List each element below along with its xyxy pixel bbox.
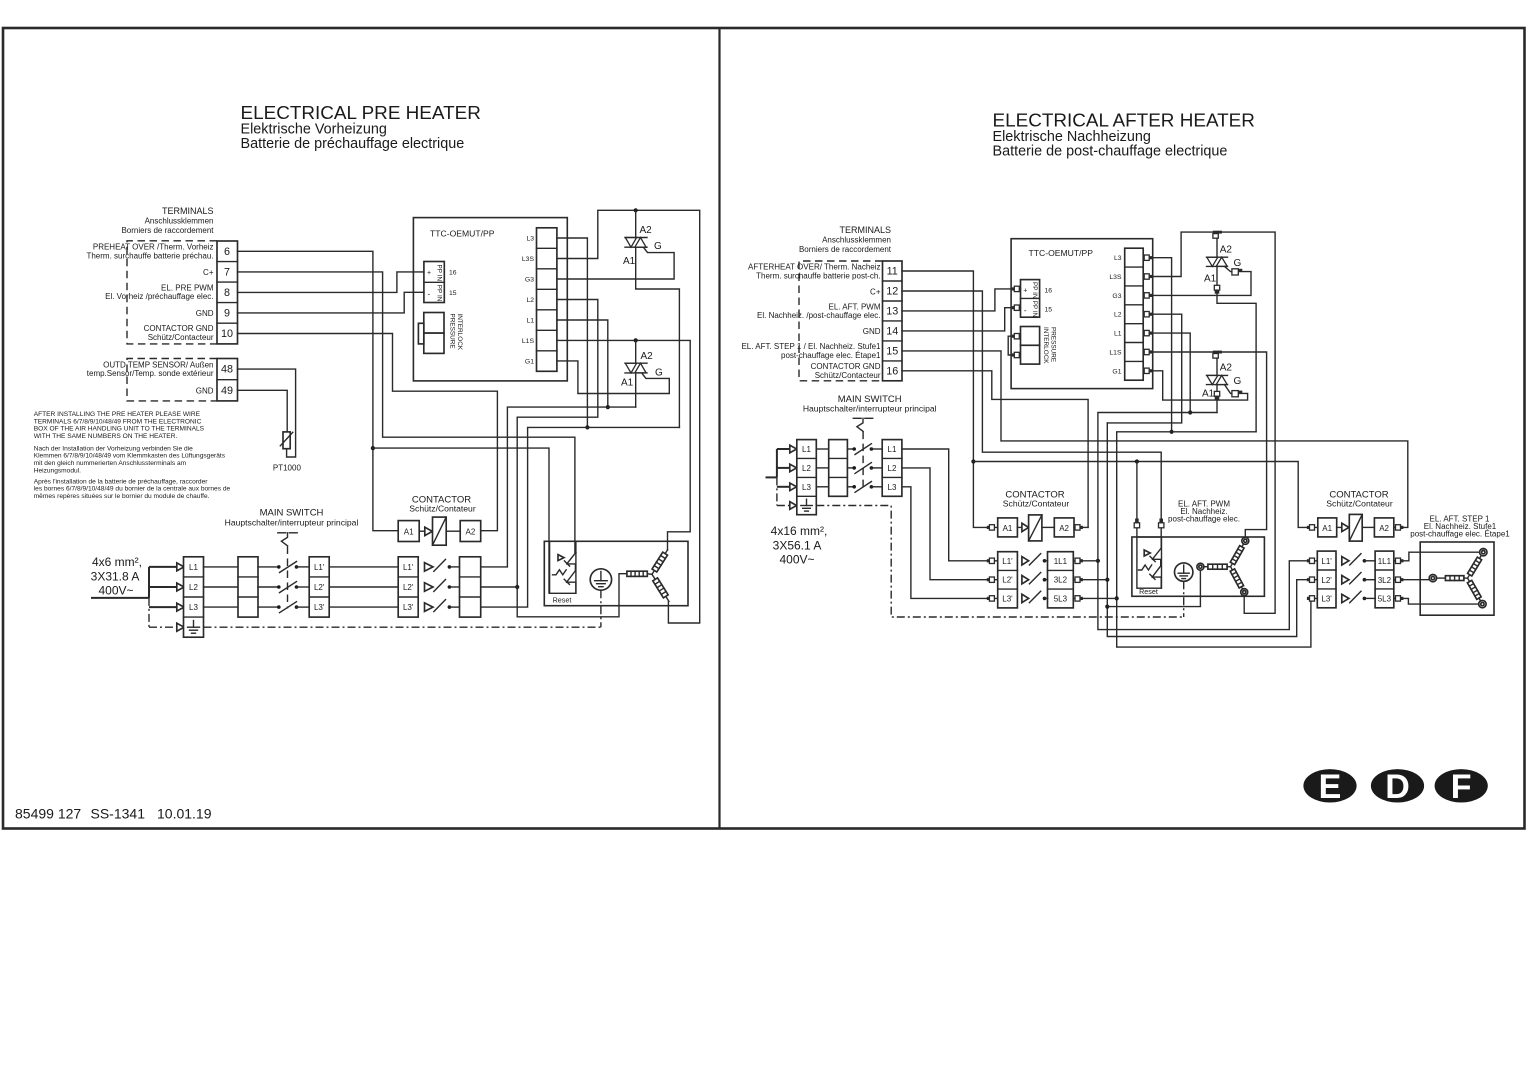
svg-text:Schütz/Contacteur: Schütz/Contacteur [815, 371, 881, 380]
svg-text:Après l'installation de la bat: Après l'installation de la batterie de p… [34, 478, 209, 485]
svg-text:G1: G1 [1112, 368, 1121, 375]
pin connector triac Q4 G [1232, 391, 1242, 397]
arrow L3 [790, 483, 797, 491]
controller box TTC-OEMUT/PP [1011, 239, 1153, 389]
feeder label [771, 524, 828, 567]
svg-text:PREHEAT OVER /Therm. Vorheiz: PREHEAT OVER /Therm. Vorheiz [93, 243, 214, 252]
wire L2 out [1107, 314, 1181, 423]
svg-text:400V~: 400V~ [98, 584, 133, 598]
contactor pole L2' arrow+blade [425, 580, 452, 592]
svg-text:49: 49 [221, 385, 233, 397]
svg-text:Schütz/Contateur: Schütz/Contateur [409, 504, 476, 514]
pin connector TTC output G1 [1144, 368, 1152, 373]
arrow L2 [177, 583, 184, 591]
wire G3 to triac Q3 gate [1143, 266, 1251, 295]
thermal element zigzag [553, 570, 567, 575]
wire branch to reset contact [1136, 462, 1138, 538]
node L2 junction at contact [515, 585, 519, 589]
pressure interlock block [418, 313, 463, 354]
input terminal block L1 L2 L3 PE [184, 557, 204, 637]
svg-text:-: - [1024, 306, 1027, 315]
svg-text:A1: A1 [1003, 524, 1013, 533]
coil arrow [419, 530, 425, 532]
wire L3S out top run [1143, 232, 1275, 613]
K1 pole 2 arrow+blade [1022, 573, 1046, 584]
svg-text:A2: A2 [1220, 363, 1233, 374]
svg-text:PRESSURE: PRESSURE [1049, 327, 1056, 362]
svg-text:L3': L3' [314, 603, 325, 612]
svg-text:Schütz/Contateur: Schütz/Contateur [1326, 499, 1393, 509]
fuse block (empty) [238, 557, 258, 617]
output terminal column L3..G1 [1125, 248, 1144, 380]
svg-text:A1: A1 [1204, 274, 1217, 285]
wire L1 net horizontal [481, 407, 636, 567]
svg-text:INTERLOCK: INTERLOCK [1042, 327, 1049, 364]
svg-text:5L3: 5L3 [1378, 595, 1392, 604]
wire 3L2 to left resistor [1394, 579, 1429, 581]
svg-text:L2': L2' [403, 583, 414, 592]
svg-text:PRESSURE: PRESSURE [449, 314, 456, 349]
svg-text:Batterie de préchauffage elect: Batterie de préchauffage electrique [241, 136, 465, 152]
arrow L2 [790, 464, 797, 472]
terminal block 6-10 [217, 241, 238, 344]
svg-text:10: 10 [221, 328, 233, 340]
page divider [718, 28, 720, 829]
wires K2 contacts [1364, 560, 1375, 562]
A1 box [1318, 518, 1337, 537]
pin connector PP IN + (16) [1012, 286, 1020, 291]
svg-text:16: 16 [886, 365, 898, 377]
reset thermal cutout box [550, 541, 576, 604]
node L1 junction [1188, 410, 1192, 414]
wire L1 out [557, 320, 608, 407]
terminal block L1' L2' L3' (first) [309, 557, 329, 617]
svg-text:GND: GND [863, 327, 881, 336]
warning text blocks [34, 411, 231, 500]
svg-text:C+: C+ [870, 287, 881, 296]
switch pole L2 [277, 582, 298, 593]
svg-text:TERMINALS: TERMINALS [839, 225, 891, 235]
pin connector K2 A2 [1396, 525, 1404, 530]
svg-text:G: G [1234, 376, 1242, 387]
wires contacts to block5 [449, 566, 459, 568]
main switch handle symbol [853, 418, 872, 431]
K2 output block 1L1 3L2 5L3 [1375, 551, 1394, 608]
svg-text:8: 8 [224, 287, 230, 299]
pin connector triac Q3 A2 [1213, 231, 1222, 239]
svg-text:A2: A2 [640, 225, 653, 236]
output block (empty) [460, 557, 481, 617]
wire terminal 14 to PP IN - [902, 308, 1021, 331]
step heater star upper-right resistor [1465, 554, 1483, 579]
svg-text:Heizungsmodul.: Heizungsmodul. [34, 467, 81, 474]
svg-text:mêmes repères situées sur le b: mêmes repères situées sur le bornier du … [34, 493, 210, 500]
wires block1 to block2 [204, 566, 239, 568]
badge F [1435, 768, 1488, 806]
pin connector K2 output [1396, 577, 1404, 582]
PT1000 sensor [273, 432, 302, 473]
node reset feed branch [1135, 459, 1139, 463]
PE stub [149, 626, 177, 628]
svg-text:Reset: Reset [1139, 587, 1158, 596]
input terminal block L1 L2 L3 PE [797, 440, 817, 515]
svg-text:L1S: L1S [1109, 350, 1122, 357]
svg-text:post-chauffage elec. Étape1: post-chauffage elec. Étape1 [781, 351, 881, 360]
svg-text:C+: C+ [203, 268, 214, 277]
svg-text:L2: L2 [802, 464, 811, 473]
arrow L1 [790, 445, 797, 453]
svg-text:G: G [654, 241, 662, 252]
switch pole L2 [852, 463, 873, 474]
controller box TTC-OEMUT/PP [413, 218, 567, 381]
svg-text:G3: G3 [1112, 293, 1121, 300]
pin connector TTC output L1S [1144, 349, 1152, 354]
wires block3 to block4 [329, 566, 398, 568]
A2 box [1374, 518, 1393, 537]
svg-text:L3: L3 [526, 236, 534, 243]
PE equipotential line (dash-dot) [816, 506, 1183, 618]
feeder label [91, 555, 142, 598]
svg-text:El. Nachheiz. /post-chauffage: El. Nachheiz. /post-chauffage elec. [757, 311, 880, 320]
node: junction terminal 6 branch [371, 446, 375, 450]
heater star upper-right resistor [1228, 543, 1245, 568]
interlock jumper [1008, 336, 1012, 355]
svg-text:Batterie de post-chauffage ele: Batterie de post-chauffage electrique [993, 144, 1228, 160]
terminal block 48-49 [217, 359, 238, 401]
arrow L1 [177, 563, 184, 571]
node L3 junction [1170, 430, 1174, 434]
pin connector pressure interlock 2 [1012, 352, 1020, 357]
svg-text:Reset: Reset [553, 596, 572, 605]
pin connector K2 input [1307, 596, 1315, 601]
pin connector K1 input [987, 558, 995, 563]
svg-text:Klemmen 6/7/8/9/10/48/49 vom K: Klemmen 6/7/8/9/10/48/49 vom Klemmkasten… [34, 453, 226, 460]
PE stub [777, 505, 790, 507]
pin connector K2 output [1396, 596, 1404, 601]
svg-text:L3: L3 [1114, 255, 1122, 262]
svg-text:PP IN: PP IN [435, 285, 442, 302]
pin connector K2 input [1307, 558, 1315, 563]
triac Q1 [623, 210, 679, 427]
main switch linkage (dashed) [287, 547, 289, 609]
svg-text:CONTACTOR GND: CONTACTOR GND [811, 362, 881, 371]
K2 pole 2 arrow+blade [1342, 573, 1366, 584]
svg-text:TTC-OEMUT/PP: TTC-OEMUT/PP [430, 229, 495, 239]
heater enclosure [544, 541, 688, 605]
svg-text:L2': L2' [1002, 576, 1013, 585]
svg-text:WITH THE SAME NUMBERS ON THE H: WITH THE SAME NUMBERS ON THE HEATER. [34, 433, 178, 440]
phase stub L1 [777, 448, 790, 450]
wire terminal 13 to PP IN + [902, 289, 1021, 311]
wire L3 net horizontal [1117, 432, 1318, 647]
coil arrow [1337, 526, 1342, 528]
wire branch to contactor K2 A1 [973, 462, 1317, 528]
PP IN input block [424, 262, 444, 303]
contact blade upper [567, 552, 576, 564]
title left [241, 103, 481, 152]
wire 5L3 to lower leg [1394, 598, 1479, 604]
pin connector triac Q3 G [1232, 269, 1242, 275]
svg-text:temp.Sensor/Temp. sonde extéri: temp.Sensor/Temp. sonde extérieur [87, 369, 214, 378]
svg-text:4x16 mm²,: 4x16 mm², [771, 524, 828, 538]
svg-text:A2: A2 [1059, 524, 1069, 533]
badge E [1303, 768, 1356, 806]
wire L1 net horizontal [1098, 413, 1317, 630]
svg-text:TERMINALS: TERMINALS [162, 206, 214, 216]
heater element star: left resistor [627, 571, 652, 576]
svg-text:L3': L3' [1002, 594, 1013, 603]
contact blade lower [567, 571, 576, 583]
step heater star lower-right resistor [1465, 577, 1482, 602]
heater element star: lower-right resistor [650, 573, 672, 603]
svg-text:PP IN: PP IN [435, 265, 442, 282]
svg-text:Borniers de raccordement: Borniers de raccordement [799, 245, 892, 254]
pin connector K1 output [1075, 558, 1083, 563]
node heater feed tap [1105, 605, 1109, 609]
svg-text:10.01.19: 10.01.19 [157, 806, 212, 822]
pin connector triac Q4 A2 [1213, 351, 1222, 359]
svg-text:Nach der Installation der Vorh: Nach der Installation der Vorheizung ver… [34, 445, 193, 452]
pin connector TTC output G3 [1144, 293, 1152, 298]
wire switch L3 to contactor K1 [902, 487, 998, 599]
earth dashed drop [600, 590, 602, 627]
wire 1L1 to upper leg [1394, 552, 1480, 561]
svg-text:A2: A2 [1379, 524, 1389, 533]
svg-text:post-chauffage elec.: post-chauffage elec. [1168, 515, 1240, 524]
dashed group terminals 6-10 [127, 241, 217, 344]
svg-text:E: E [1319, 768, 1342, 806]
svg-text:A1: A1 [1322, 524, 1332, 533]
ground symbol in PE cell [801, 499, 812, 511]
badge D [1371, 768, 1424, 806]
svg-text:L3: L3 [189, 603, 198, 612]
svg-text:L2: L2 [189, 583, 198, 592]
contactor pole L3' arrow+blade [425, 600, 452, 612]
svg-text:400V~: 400V~ [779, 553, 814, 567]
wires K1 outputs to vertical nets [1045, 560, 1048, 562]
wire G1 to triac Q4 gate [1143, 371, 1247, 400]
svg-text:Schütz/Contateur: Schütz/Contateur [1003, 499, 1070, 509]
svg-text:EL. AFT. STEP 1 / El. Nachheiz: EL. AFT. STEP 1 / El. Nachheiz. Stufe1 [741, 342, 881, 351]
pin connector K2 input [1307, 577, 1315, 582]
step heater enclosure [1420, 542, 1494, 615]
protective earth circle [1175, 563, 1193, 581]
node L1 junction [606, 405, 610, 409]
svg-text:EL. PRE PWM: EL. PRE PWM [161, 283, 214, 292]
pin connector TTC output L3 [1144, 255, 1152, 260]
svg-text:14: 14 [886, 325, 898, 337]
svg-text:L3: L3 [802, 483, 811, 492]
wire G1 to triac Q2 gate [557, 361, 669, 394]
svg-text:L3': L3' [403, 603, 414, 612]
protective earth circle [590, 569, 611, 590]
svg-text:G3: G3 [525, 277, 534, 284]
svg-text:post-chauffage elec. Étape1: post-chauffage elec. Étape1 [1410, 530, 1510, 539]
svg-text:L1: L1 [526, 318, 534, 325]
wire L1S out [1143, 352, 1266, 537]
border frame [3, 28, 1525, 829]
K1 pole 3 arrow+blade [1022, 591, 1046, 602]
node L3 junction [585, 425, 589, 429]
wire terminal 9 to PP IN - [238, 292, 424, 313]
svg-text:G1: G1 [525, 359, 534, 366]
coil arrow [1017, 526, 1022, 528]
svg-text:L1': L1' [403, 563, 414, 572]
output terminal block L1 L2 L3 [882, 440, 902, 497]
coil K1 [1029, 515, 1055, 541]
svg-text:3X56.1 A: 3X56.1 A [773, 539, 822, 553]
svg-text:L1: L1 [189, 563, 198, 572]
wire L1 out [1143, 333, 1190, 412]
K1 input block L1' L2' L3' [998, 552, 1018, 608]
arrow PE [790, 502, 797, 510]
svg-text:les bornes 6/7/8/9/10/48/49 du: les bornes 6/7/8/9/10/48/49 du bornier d… [34, 486, 231, 493]
svg-text:El. Vorheiz /préchauffage elec: El. Vorheiz /préchauffage elec. [105, 292, 213, 301]
pin connector K2 A1 [1307, 525, 1315, 530]
svg-text:Therm. surchauffe batterie pos: Therm. surchauffe batterie post-ch. [756, 271, 880, 280]
svg-text:A2: A2 [1220, 245, 1233, 256]
svg-text:12: 12 [886, 286, 898, 298]
wire K1 A2 to net [1074, 526, 1088, 528]
pin connector K1 input [987, 596, 995, 601]
svg-text:6: 6 [224, 246, 230, 258]
node 1L1 tap [1096, 559, 1100, 563]
svg-text:BOX OF THE AIR HANDLING UNIT T: BOX OF THE AIR HANDLING UNIT TO THE TERM… [34, 426, 205, 433]
pin connector K1 output [1075, 577, 1083, 582]
svg-text:L3S: L3S [1109, 274, 1122, 281]
svg-text:L3S: L3S [522, 256, 535, 263]
svg-text:CONTACTOR GND: CONTACTOR GND [144, 324, 214, 333]
svg-text:L2: L2 [1114, 312, 1122, 319]
svg-text:A1: A1 [404, 528, 414, 537]
svg-text:L2': L2' [1321, 576, 1332, 585]
terminal block 11-16 [883, 261, 903, 381]
svg-text:Elektrische Nachheizung: Elektrische Nachheizung [993, 129, 1151, 145]
ground symbol in PE cell [188, 621, 200, 634]
wire terminal 7 to reset thermal contact [238, 272, 575, 553]
svg-text:L1': L1' [1321, 557, 1332, 566]
K1 pole 1 arrow+blade [1022, 554, 1046, 565]
heater star left resistor [1197, 563, 1231, 570]
svg-text:5L3: 5L3 [1054, 594, 1068, 603]
svg-text:INTERLOCK: INTERLOCK [456, 314, 463, 351]
wire terminal 6 to contactor A1 [238, 251, 399, 530]
svg-text:13: 13 [886, 305, 898, 317]
svg-text:Anschlussklemmen: Anschlussklemmen [145, 217, 214, 226]
trip indicator triangle [558, 555, 564, 561]
terminals heading left [121, 206, 214, 235]
switch pole L1 [852, 444, 873, 455]
svg-text:Elektrische Vorheizung: Elektrische Vorheizung [241, 121, 387, 137]
svg-text:A1: A1 [623, 256, 636, 267]
wire L1S out to heater leg [557, 340, 690, 550]
wires block2 to switch [258, 566, 279, 568]
feeder line [766, 476, 777, 478]
output terminal column L3..G1 [537, 228, 557, 371]
svg-text:16: 16 [449, 270, 457, 277]
svg-text:AFTERHEAT OVER/ Therm. Nacheiz: AFTERHEAT OVER/ Therm. Nacheiz [748, 263, 880, 272]
earth dashed drop [1183, 581, 1185, 617]
svg-text:15: 15 [1045, 307, 1053, 314]
wire L2 branch to heater resistor [517, 574, 627, 617]
pin connector K1 input [987, 577, 995, 582]
node terminal 11 branch [971, 459, 975, 463]
svg-text:-: - [428, 290, 431, 299]
svg-text:PP IN: PP IN [1031, 301, 1038, 318]
node triac Q1 A2 tap [634, 208, 638, 212]
wires switch to block3 [871, 448, 882, 450]
node triac Q2 A2 tap [634, 338, 638, 342]
svg-text:L1: L1 [888, 445, 897, 454]
triac Q3 [1204, 232, 1256, 432]
terminals heading right [799, 225, 892, 254]
svg-text:F: F [1451, 768, 1472, 806]
svg-text:GND: GND [196, 309, 214, 318]
svg-text:mit den gleich nummerierten An: mit den gleich nummerierten Anschlusster… [34, 460, 187, 467]
phase stub L2 [777, 467, 790, 469]
svg-text:1L1: 1L1 [1054, 557, 1068, 566]
pin connector K1 A2 [1075, 525, 1083, 530]
wire terminal 16 to contactor K1 A2 [902, 371, 1088, 528]
pin connector K1 A1 [987, 525, 995, 530]
terminal labels 11-16 [741, 263, 881, 380]
main switch linkage (dashed) [862, 432, 864, 489]
svg-text:EL. AFT. PWM: EL. AFT. PWM [828, 302, 880, 311]
phase stub L3 [777, 486, 790, 488]
pin connector TTC output L3S [1144, 274, 1152, 279]
svg-text:SS-1341: SS-1341 [91, 806, 146, 822]
wires switch to block3 [297, 566, 310, 568]
terminal block L1' L2' L3' (second) [398, 557, 418, 617]
heater feed wire to left resistor [1107, 570, 1200, 606]
pin connector K1 output [1075, 596, 1083, 601]
wire terminal 12 to reset contact [902, 291, 1161, 548]
wire terminal 48 to PT1000 [238, 369, 296, 457]
svg-text:AFTER INSTALLING THE PRE HEATE: AFTER INSTALLING THE PRE HEATER PLEASE W… [34, 411, 201, 418]
svg-text:9: 9 [224, 308, 230, 320]
K1 output block 1L1 3L2 5L3 [1048, 552, 1074, 608]
svg-text:L1: L1 [1114, 331, 1122, 338]
pressure interlock block [1021, 327, 1057, 365]
svg-text:15: 15 [449, 290, 457, 297]
svg-text:1L1: 1L1 [1378, 557, 1392, 566]
K2 pole 3 arrow+blade [1342, 591, 1366, 602]
reset thermal cutout box [1137, 537, 1162, 596]
node 3L2 tap [1105, 578, 1109, 582]
dashed group terminals 11-16 [799, 261, 883, 381]
phase stub L3 [149, 606, 177, 608]
svg-text:PT1000: PT1000 [273, 464, 302, 473]
svg-text:GND: GND [196, 387, 214, 396]
feeder line [91, 597, 149, 599]
svg-text:L3': L3' [1321, 595, 1332, 604]
K2 pole 1 arrow+blade [1342, 554, 1366, 565]
arrow PE [177, 623, 184, 631]
svg-text:Anschlussklemmen: Anschlussklemmen [822, 236, 891, 245]
wire L3 out [1143, 258, 1171, 432]
svg-text:L2: L2 [888, 464, 897, 473]
wire terminal 15 to contactor K2 A2 [902, 351, 1408, 528]
pin connector pressure interlock 1 [1012, 334, 1020, 339]
svg-text:D: D [1385, 768, 1410, 806]
svg-text:7: 7 [224, 267, 230, 279]
svg-text:L2: L2 [526, 297, 534, 304]
svg-text:+: + [427, 270, 431, 277]
triac Q4 [1202, 352, 1242, 413]
svg-text:3L2: 3L2 [1054, 576, 1068, 585]
dashed group terminals 48-49 [127, 359, 217, 401]
A1 box [998, 518, 1018, 537]
